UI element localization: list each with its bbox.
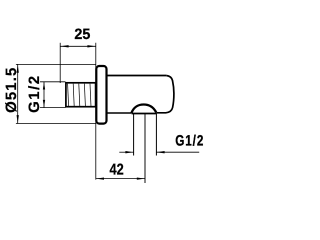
dimension G1/2 bore: top arrowhead [43, 82, 45, 90]
svg-text:G1/2: G1/2 [26, 74, 43, 113]
outlet right edge / extension line [155, 114, 157, 156]
dimension G1/2 bore: top extension line [40, 81, 66, 83]
wall plate (escutcheon) [96, 66, 106, 124]
threaded bore rectangle with hatch [66, 83, 96, 107]
dimension G1/2 outlet: right segment [156, 151, 199, 153]
outlet center line [144, 114, 146, 184]
dimension G1/2 bore: bottom arrowhead [43, 100, 45, 108]
dimension 42: dimension line [96, 178, 145, 180]
dimension G1/2 outlet: right arrowhead [157, 151, 165, 153]
thread hatch lines [68, 84, 91, 107]
svg-text:42: 42 [110, 161, 124, 178]
dimension 25: left arrowhead [60, 45, 68, 47]
dimension D51.5: top extension line [16, 63, 96, 65]
dimension G1/2 bore: dimension line [43, 82, 45, 108]
dimension 42: left arrowhead [96, 177, 104, 179]
dimension 42: right arrowhead [137, 177, 145, 179]
svg-text:Ø51.5: Ø51.5 [3, 67, 20, 113]
svg-text:G1/2: G1/2 [175, 133, 204, 150]
wire wall-face extension line (right ext of 25 / left ext of 42) [95, 43, 97, 180]
dimension D51.5: dimension line [17, 64, 19, 123]
dimension 25: right arrowhead [87, 45, 95, 47]
body right cap outline [156, 76, 174, 113]
svg-text:25: 25 [74, 26, 90, 43]
dimension 25: dimension line [60, 45, 96, 47]
dimension D51.5: bottom arrowhead [17, 115, 19, 123]
dimension D51.5: top arrowhead [17, 65, 19, 73]
spout dome arc [131, 105, 156, 114]
dimension G1/2 outlet: left arrowhead [125, 151, 133, 153]
outlet left edge / extension line [133, 114, 135, 156]
dimension 25: extension line left [59, 43, 61, 83]
dimension D51.5: bottom extension line [16, 123, 96, 125]
body tube bottom outline (left of spout) [107, 112, 132, 114]
dimension G1/2 outlet: left segment [119, 151, 133, 153]
dimension G1/2 bore: bottom extension line [40, 107, 66, 109]
body tube top outline [107, 75, 167, 77]
spout dome base line [132, 113, 157, 115]
